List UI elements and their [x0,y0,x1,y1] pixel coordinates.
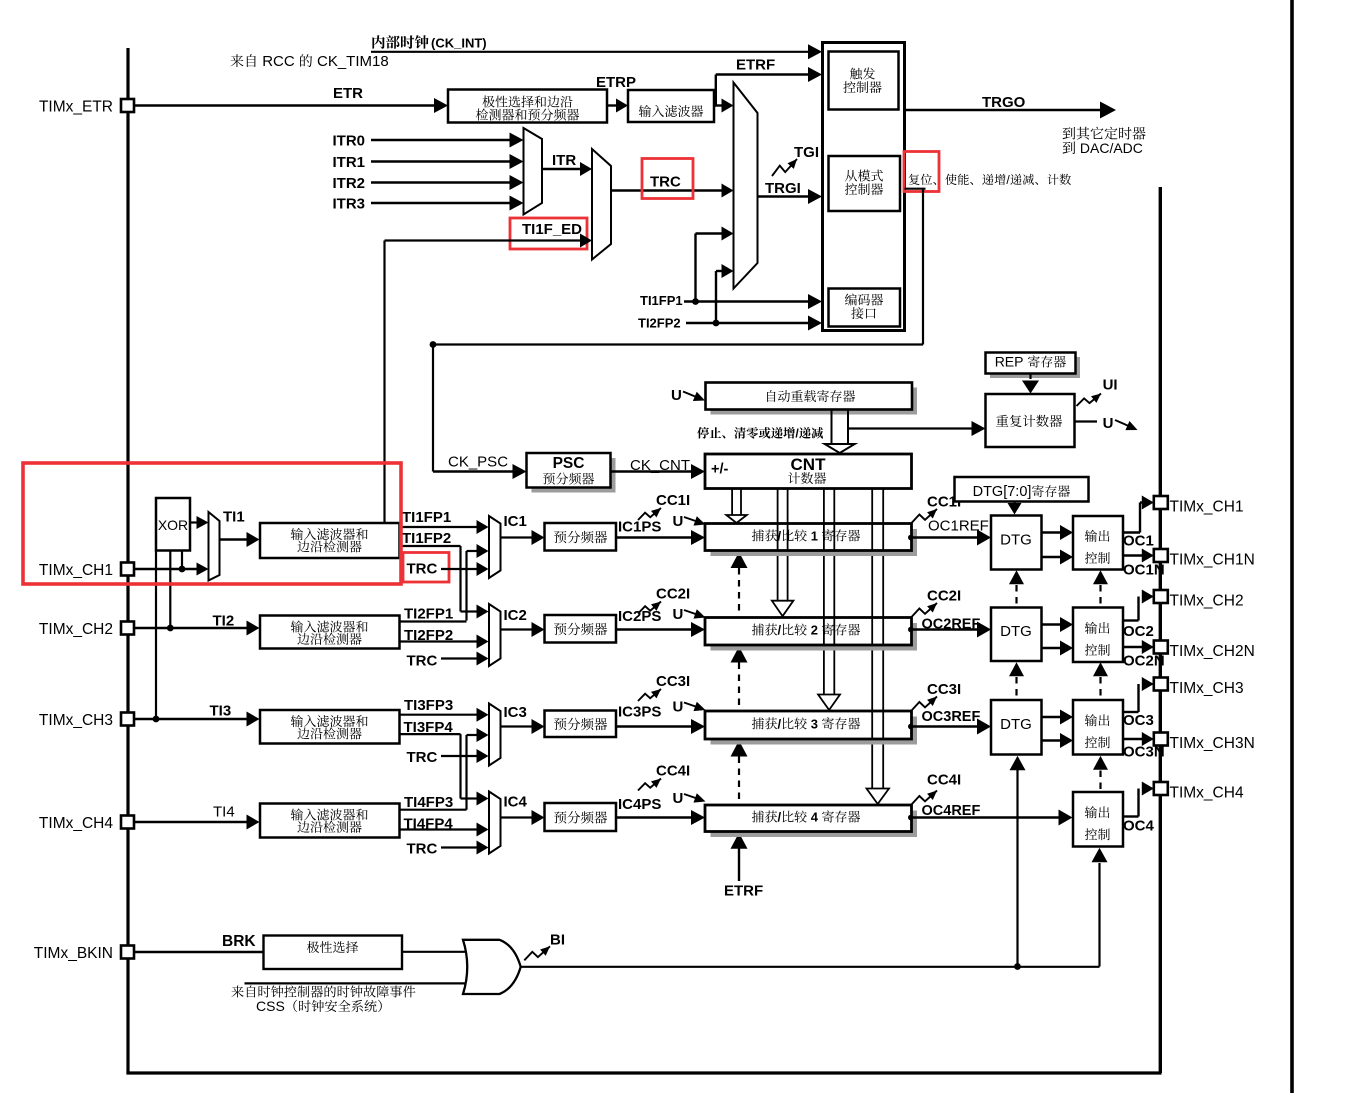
svg-text:4: 4 [811,810,819,825]
svg-text:ITR1: ITR1 [332,154,365,171]
svg-text:IC3: IC3 [504,704,527,721]
svg-text:ETRP: ETRP [596,74,636,91]
svg-text:TRC: TRC [650,174,681,191]
svg-text:ITR: ITR [552,152,576,169]
svg-text:TIMx_CH3: TIMx_CH3 [39,712,113,729]
svg-text:TIMx_CH3: TIMx_CH3 [1170,680,1244,697]
svg-text:BRK: BRK [222,933,256,950]
svg-text:TIMx_CH2: TIMx_CH2 [1170,593,1244,610]
svg-text:TI1FP2: TI1FP2 [402,530,451,547]
svg-text:TRC: TRC [407,749,438,766]
svg-text:DTG: DTG [1000,623,1032,640]
svg-text:BI: BI [550,932,565,949]
svg-text:DTG: DTG [1000,532,1032,549]
svg-text:TIMx_CH2: TIMx_CH2 [39,621,113,638]
svg-text:TIMx_CH2N: TIMx_CH2N [1170,643,1255,660]
svg-text:TI2FP1: TI2FP1 [404,606,453,623]
svg-text:CC4I: CC4I [656,763,690,780]
svg-text:TRGO: TRGO [982,94,1026,111]
svg-text:ITR3: ITR3 [332,196,365,213]
svg-text:OC1N: OC1N [1123,562,1165,579]
svg-text:OC4: OC4 [1123,818,1155,835]
svg-text:TIMx_CH3N: TIMx_CH3N [1170,735,1255,752]
svg-text:ETRF: ETRF [724,883,763,900]
svg-text:OC3: OC3 [1123,712,1154,729]
svg-text:OC2: OC2 [1123,623,1154,640]
svg-text:1: 1 [811,528,818,543]
svg-text:U: U [671,387,682,404]
svg-text:CK_PSC: CK_PSC [448,454,508,471]
svg-text:CK_TIM18: CK_TIM18 [317,53,389,70]
svg-text:DAC/ADC: DAC/ADC [1080,140,1143,156]
svg-text:CC1I: CC1I [656,492,690,509]
svg-text:TI1: TI1 [223,509,245,526]
svg-text:DTG[7:0]: DTG[7:0] [973,484,1032,500]
svg-text:PSC: PSC [553,455,585,472]
svg-text:TI4FP3: TI4FP3 [404,794,453,811]
svg-text:TRC: TRC [407,841,438,858]
svg-text:ETR: ETR [333,85,363,102]
svg-text:TI4: TI4 [213,804,235,821]
svg-text:ITR0: ITR0 [332,133,365,150]
svg-text:IC3PS: IC3PS [618,704,661,721]
svg-text:CC3I: CC3I [927,681,961,698]
svg-text:TIMx_CH4: TIMx_CH4 [1170,785,1244,802]
svg-text:CNT: CNT [791,455,827,474]
svg-text:OC1: OC1 [1123,533,1154,550]
svg-text:UI: UI [1103,377,1118,394]
svg-text:CSS: CSS [256,998,285,1014]
svg-text:(CK_INT): (CK_INT) [431,36,487,51]
svg-text:TRC: TRC [407,653,438,670]
svg-text:TIMx_BKIN: TIMx_BKIN [34,945,113,962]
svg-text:U: U [673,699,684,716]
svg-text:REP: REP [995,354,1024,370]
svg-text:/: / [778,810,782,825]
svg-text:/: / [1006,173,1010,187]
svg-text:TIMx_CH1: TIMx_CH1 [1170,499,1244,516]
svg-text:TI1FP1: TI1FP1 [402,509,451,526]
svg-text:DTG: DTG [1000,716,1032,733]
svg-text:TRC: TRC [407,561,438,578]
svg-text:CC2I: CC2I [927,588,961,605]
svg-text:TI1FP1: TI1FP1 [640,293,683,308]
svg-text:CC3I: CC3I [656,673,690,690]
svg-text:TGI: TGI [794,144,819,161]
svg-text:/: / [795,427,799,441]
svg-text:ITR2: ITR2 [332,175,365,192]
svg-text:ETRF: ETRF [736,57,775,74]
svg-text:3: 3 [811,716,818,731]
svg-text:/: / [778,623,782,638]
svg-text:IC4PS: IC4PS [618,796,661,813]
svg-text:TRGI: TRGI [765,180,801,197]
svg-text:TIMx_CH4: TIMx_CH4 [39,815,113,832]
svg-text:XOR: XOR [158,517,188,533]
svg-text:U: U [673,606,684,623]
svg-text:TIMx_CH1N: TIMx_CH1N [1170,552,1255,569]
svg-text:IC1PS: IC1PS [618,519,661,536]
svg-text:IC4: IC4 [504,794,528,811]
svg-text:TIMx_ETR: TIMx_ETR [39,98,113,115]
svg-text:2: 2 [811,623,818,638]
svg-text:TI2FP2: TI2FP2 [638,316,681,331]
svg-text:CC2I: CC2I [656,586,690,603]
svg-text:TI3: TI3 [210,703,232,720]
svg-text:IC1: IC1 [504,513,527,530]
svg-text:TI1F_ED: TI1F_ED [522,221,582,238]
svg-text:OC2N: OC2N [1123,653,1165,670]
svg-text:RCC: RCC [262,53,295,70]
svg-text:IC2: IC2 [504,607,527,624]
svg-text:CC4I: CC4I [927,772,961,789]
svg-text:U: U [673,790,684,807]
svg-text:OC3REF: OC3REF [922,709,981,725]
svg-text:+/-: +/- [711,462,728,478]
svg-text:TI3FP3: TI3FP3 [404,697,453,714]
svg-text:/: / [778,716,782,731]
svg-text:TIMx_CH1: TIMx_CH1 [39,562,113,579]
svg-text:U: U [673,513,684,530]
svg-text:U: U [1103,415,1114,432]
